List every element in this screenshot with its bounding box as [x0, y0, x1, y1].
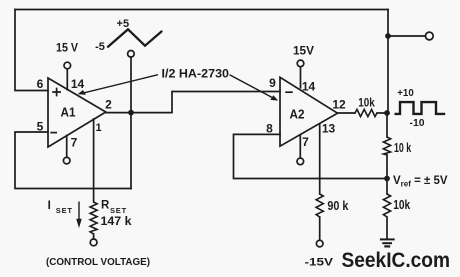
- wire triangle-output node vertical: [130, 57, 132, 188]
- resistor 10k upper right: [383, 137, 390, 155]
- svg-text:A1: A1: [61, 106, 76, 120]
- svg-text:15 V: 15 V: [56, 43, 78, 55]
- wire left rail to A1 pin6: [15, 10, 48, 91]
- svg-text:14: 14: [302, 80, 316, 94]
- svg-text:1: 1: [95, 122, 101, 134]
- svg-text:6: 6: [37, 77, 44, 91]
- node Vref junction: [384, 176, 390, 182]
- waveform triangle input: [108, 29, 162, 46]
- svg-text:SeekIC.com: SeekIC.com: [342, 249, 451, 272]
- svg-text:7: 7: [71, 136, 78, 150]
- svg-text:-5: -5: [95, 41, 105, 53]
- terminal A1 pin7 circle: [63, 157, 70, 164]
- wire A2 pin7 stub: [299, 135, 301, 158]
- terminal triangle-wave circle: [128, 51, 135, 58]
- svg-text:10k: 10k: [358, 95, 375, 109]
- svg-text:+10: +10: [397, 88, 414, 99]
- svg-text:5: 5: [37, 120, 44, 134]
- svg-text:SET: SET: [110, 206, 127, 215]
- wire A1 output to A2 pin9: [106, 92, 280, 113]
- svg-text:R: R: [101, 200, 110, 212]
- svg-text:-15V: -15V: [305, 257, 334, 269]
- wire A1 pin14 stub: [66, 69, 68, 90]
- label pointer to A2: [230, 75, 279, 101]
- node A1 output junction: [128, 110, 134, 116]
- wire A2 output to 10k: [337, 112, 387, 114]
- svg-text:147 k: 147 k: [101, 216, 133, 228]
- op-amp A1: [48, 78, 106, 147]
- symbol plus A1: [52, 88, 61, 97]
- op-amp A2: [280, 77, 338, 146]
- resistor 10k lower right: [383, 194, 390, 217]
- wire A1 feedback loop: [15, 132, 131, 189]
- wire top rail: [15, 9, 388, 11]
- label pointer to A1: [78, 75, 158, 95]
- svg-text:-10: -10: [410, 118, 425, 129]
- svg-text:(CONTROL VOLTAGE): (CONTROL VOLTAGE): [46, 257, 150, 268]
- terminal output circle: [425, 32, 433, 40]
- wire A2 pin14 stub: [300, 67, 302, 88]
- terminal control voltage circle: [90, 239, 97, 246]
- ground: [380, 239, 395, 246]
- svg-text:Vref = ± 5V: Vref = ± 5V: [393, 175, 448, 189]
- terminal A2 pin7 circle: [297, 158, 304, 165]
- terminal A2 +15V circle: [297, 60, 304, 67]
- wire A1 pin7 stub: [66, 136, 68, 158]
- wire A1 pin1 down: [93, 119, 95, 202]
- wire A2 pin13 down: [319, 124, 321, 194]
- svg-text:8: 8: [266, 122, 273, 136]
- resistor 10k horizontal: [355, 109, 377, 116]
- node output tap junction: [385, 33, 391, 39]
- svg-text:I: I: [48, 200, 51, 212]
- wire Rset to control terminal: [93, 234, 95, 239]
- resistor Rset 147k: [90, 202, 97, 234]
- wire output tap to terminal: [388, 35, 426, 37]
- terminal -15V circle: [316, 240, 323, 247]
- svg-text:13: 13: [322, 122, 336, 136]
- current arrow Iset: [76, 202, 82, 229]
- svg-text:+5: +5: [117, 18, 130, 30]
- svg-text:12: 12: [332, 98, 346, 112]
- waveform square output: [395, 102, 446, 114]
- svg-text:I/2 HA-2730: I/2 HA-2730: [162, 69, 230, 81]
- svg-text:9: 9: [269, 76, 276, 90]
- terminal A1 +15V circle: [64, 62, 71, 69]
- svg-text:90 k: 90 k: [327, 199, 348, 213]
- symbol minus A2: [285, 91, 293, 93]
- wire right rail down: [387, 10, 389, 114]
- svg-text:14: 14: [71, 77, 85, 91]
- wire right node verticals: [386, 113, 388, 238]
- svg-text:2: 2: [105, 98, 112, 112]
- svg-text:15V: 15V: [293, 46, 314, 58]
- svg-text:7: 7: [302, 135, 309, 149]
- resistor 90k: [316, 194, 323, 217]
- svg-text:10k: 10k: [393, 198, 410, 212]
- wire A2 pin8 loop to Vref: [234, 134, 388, 178]
- svg-text:A2: A2: [290, 108, 305, 122]
- node A2 output junction: [384, 110, 390, 116]
- symbol minus A1: [50, 132, 57, 134]
- wire 90k to -15V terminal: [319, 217, 321, 240]
- svg-text:10 k: 10 k: [394, 141, 411, 155]
- svg-text:SET: SET: [56, 206, 73, 215]
